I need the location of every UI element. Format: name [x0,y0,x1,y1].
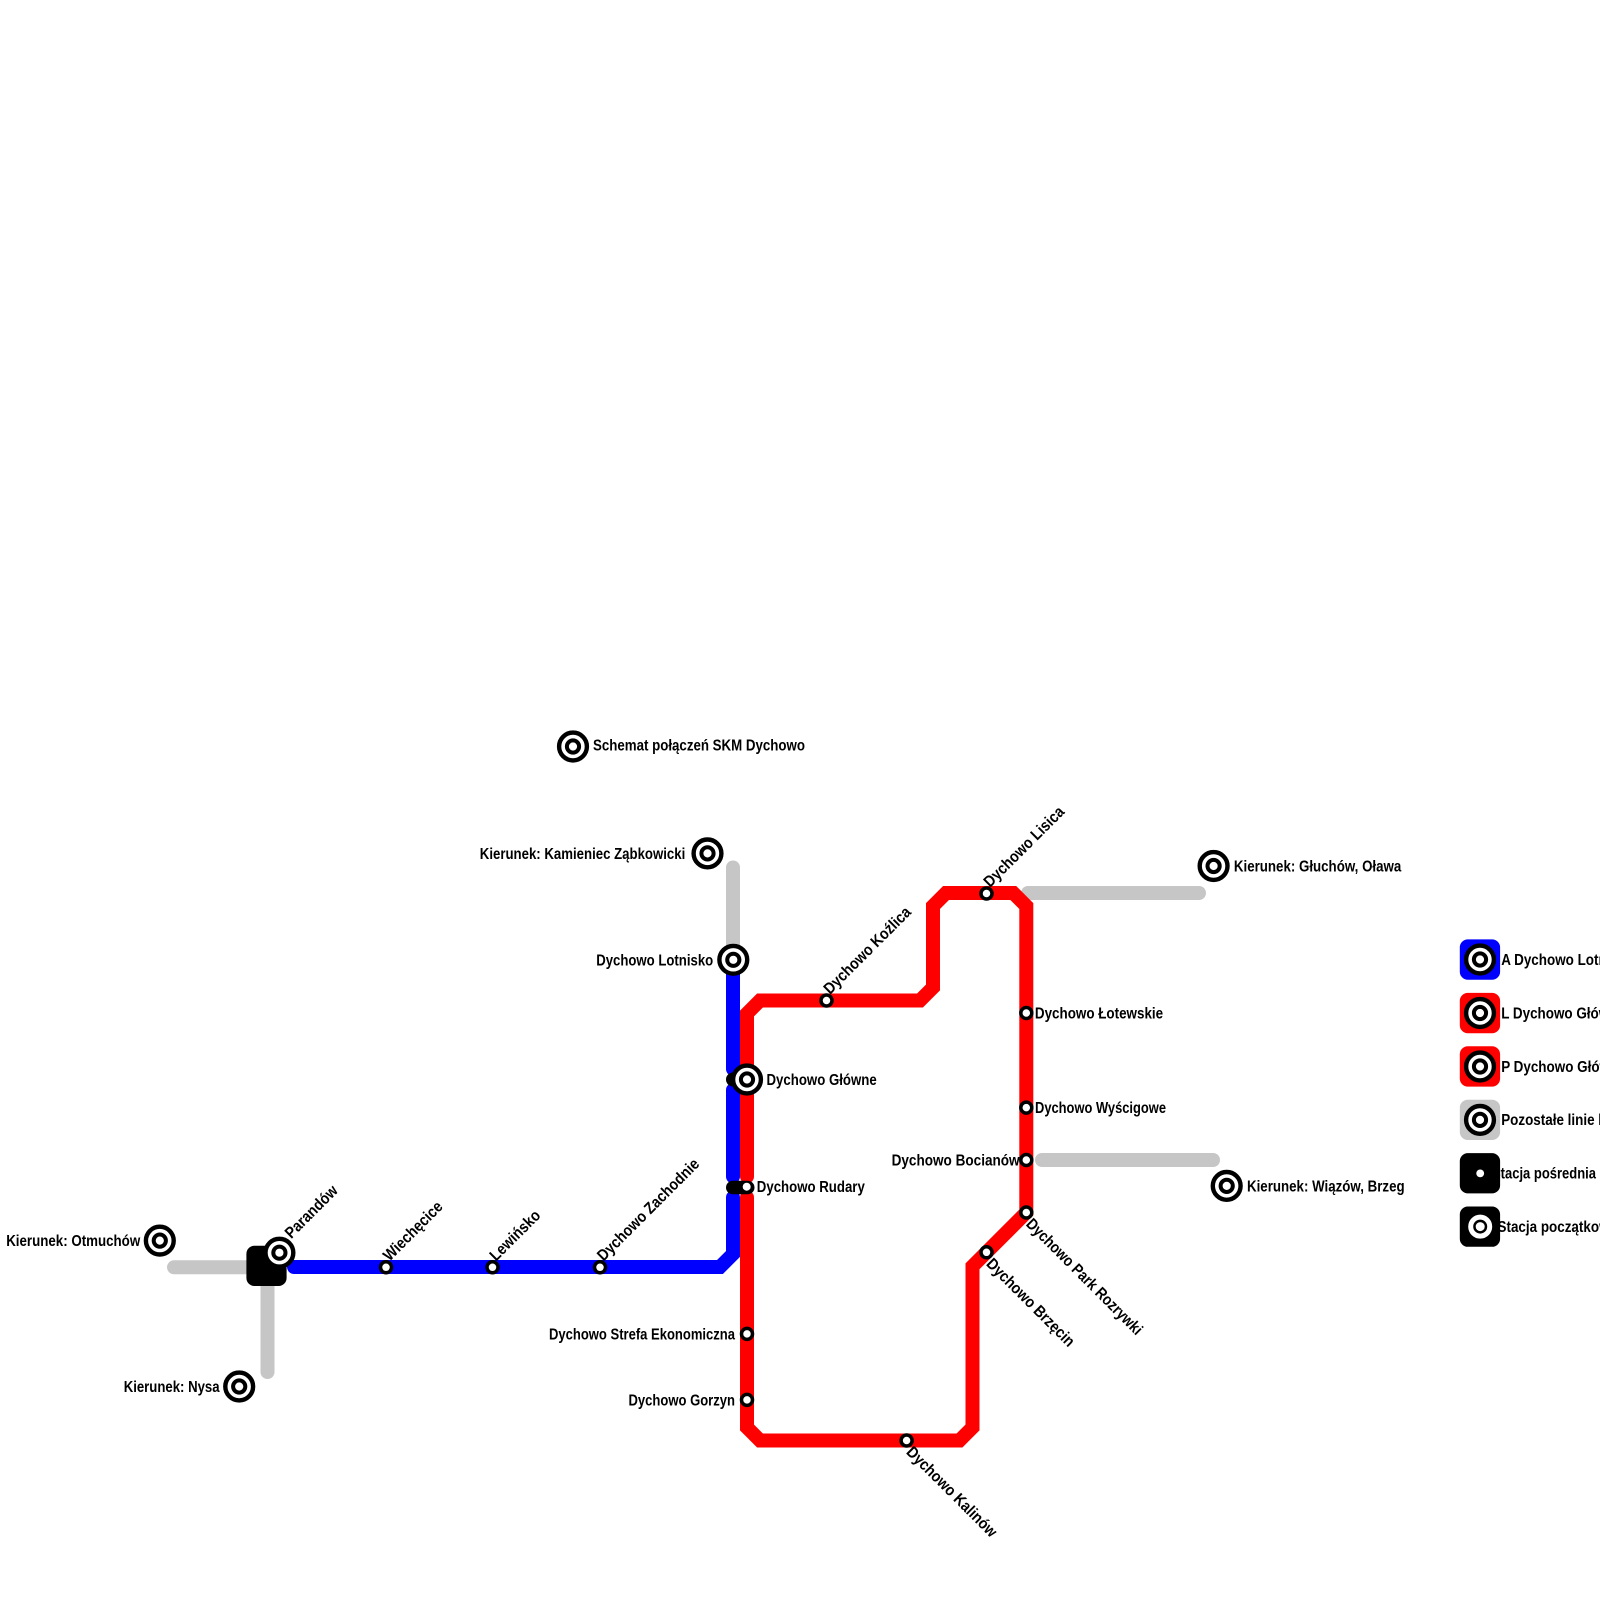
bullseye Kierunek Kamieniec [694,840,722,868]
svg-text:Dychowo Rudary: Dychowo Rudary [757,1179,865,1196]
svg-text:Kierunek: Głuchów, Oława: Kierunek: Głuchów, Oława [1234,859,1401,876]
legend swatch black stacja poczatkowa [1460,1207,1500,1247]
blue line segment Rudary - Glowne [726,1090,740,1177]
red loop line L/P [747,893,1026,1441]
svg-text:A Dychowo Lotnisko: A Dychowo Lotnisko [1501,952,1600,969]
svg-text:Dychowo Główne: Dychowo Główne [767,1072,877,1089]
station dot Dychowo Bocianow [1021,1155,1032,1166]
gray line to Otmuchow [174,1260,250,1274]
svg-text:Kierunek: Kamieniec Ząbkowicki: Kierunek: Kamieniec Ząbkowicki [480,846,686,863]
station dot Dychowo Wyscigowe [1021,1102,1032,1113]
svg-text:Stacja początkowa: Stacja początkowa [1498,1219,1600,1236]
svg-text:Dychowo Łotewskie: Dychowo Łotewskie [1035,1006,1163,1023]
legend swatch gray other lines [1460,1100,1500,1140]
legend bullseye L [1466,999,1494,1027]
svg-text:Pozostałe linie kolejowe: Pozostałe linie kolejowe [1501,1112,1600,1129]
legend swatch red line L [1460,993,1500,1033]
gray line to Kamieniec Zabkowicki [726,868,740,951]
legend bullseye P [1466,1053,1494,1081]
svg-text:Dychowo Bocianów: Dychowo Bocianów [892,1153,1020,1170]
svg-text:Schemat połączeń SKM Dychowo: Schemat połączeń SKM Dychowo [593,738,805,755]
station dot Dychowo Lotewskie [1021,1008,1032,1019]
svg-text:Kierunek: Wiązów, Brzeg: Kierunek: Wiązów, Brzeg [1247,1178,1405,1195]
gray line to Gluchow, Olawa [1028,886,1199,900]
blue line A: Parandow - Dychowo Rudary [294,1198,733,1268]
station dot Dychowo Rudary [743,1183,751,1191]
station dot Dychowo Zachodnie [595,1262,606,1273]
svg-text:Dychowo Strefa Ekonomiczna: Dychowo Strefa Ekonomiczna [549,1326,735,1343]
black circle marker at Dychowo Glowne (blue line) [726,1073,740,1087]
bullseye Kierunek Gluchow [1200,852,1228,880]
svg-text:Kierunek: Nysa: Kierunek: Nysa [124,1379,220,1396]
bullseye Kierunek Otmuchow [146,1227,174,1255]
legend white dot stacja posrednia [1476,1170,1484,1178]
legend bullseye other [1466,1106,1494,1134]
bullseye Dychowo Glowne [733,1066,761,1094]
station dot Dychowo Lisica [981,888,992,899]
bullseye Dychowo Lotnisko [719,946,747,974]
station dot Dychowo Brzecin [981,1247,992,1258]
station dot Dychowo Kozlica [821,995,832,1006]
svg-text:Dychowo Wyścigowe: Dychowo Wyścigowe [1035,1100,1166,1117]
station dot Lewinsko [487,1262,498,1273]
bullseye Kierunek Wiazow [1213,1172,1241,1200]
legend white bullseye stacja poczatkowa [1471,1217,1490,1236]
svg-text:L Dychowo Główne: L Dychowo Główne [1501,1005,1600,1022]
station dot Wiechecice [381,1262,392,1273]
svg-text:Dychowo Lotnisko: Dychowo Lotnisko [596,952,713,969]
svg-text:P Dychowo Główne: P Dychowo Główne [1501,1059,1600,1076]
station dot Dychowo Park Rozrywki [1021,1207,1032,1218]
svg-text:Kierunek: Otmuchów: Kierunek: Otmuchów [6,1233,140,1250]
bullseye title [559,733,587,761]
bullseye Parandow [266,1239,294,1267]
legend swatch blue line A [1460,939,1500,979]
station dot Dychowo Strefa Ekonomiczna [742,1328,753,1339]
bullseye Kierunek Nysa [225,1373,253,1401]
legend bullseye A [1466,946,1494,974]
station dot Dychowo Gorzyn [742,1394,753,1405]
svg-text:Stacja pośrednia: Stacja pośrednia [1492,1166,1596,1183]
station dot Dychowo Kalinow [901,1435,912,1446]
gray line to Wiazow, Brzeg [1042,1153,1213,1167]
gray line to Nysa [261,1283,275,1372]
legend swatch black stacja posrednia [1460,1153,1500,1193]
svg-text:Dychowo Gorzyn: Dychowo Gorzyn [629,1392,736,1409]
legend swatch red line P [1460,1046,1500,1086]
black pill Dychowo Rudary [726,1181,755,1195]
blue line segment Glowne - Lotnisko [726,960,740,1069]
black transfer square Parandow [246,1246,286,1286]
